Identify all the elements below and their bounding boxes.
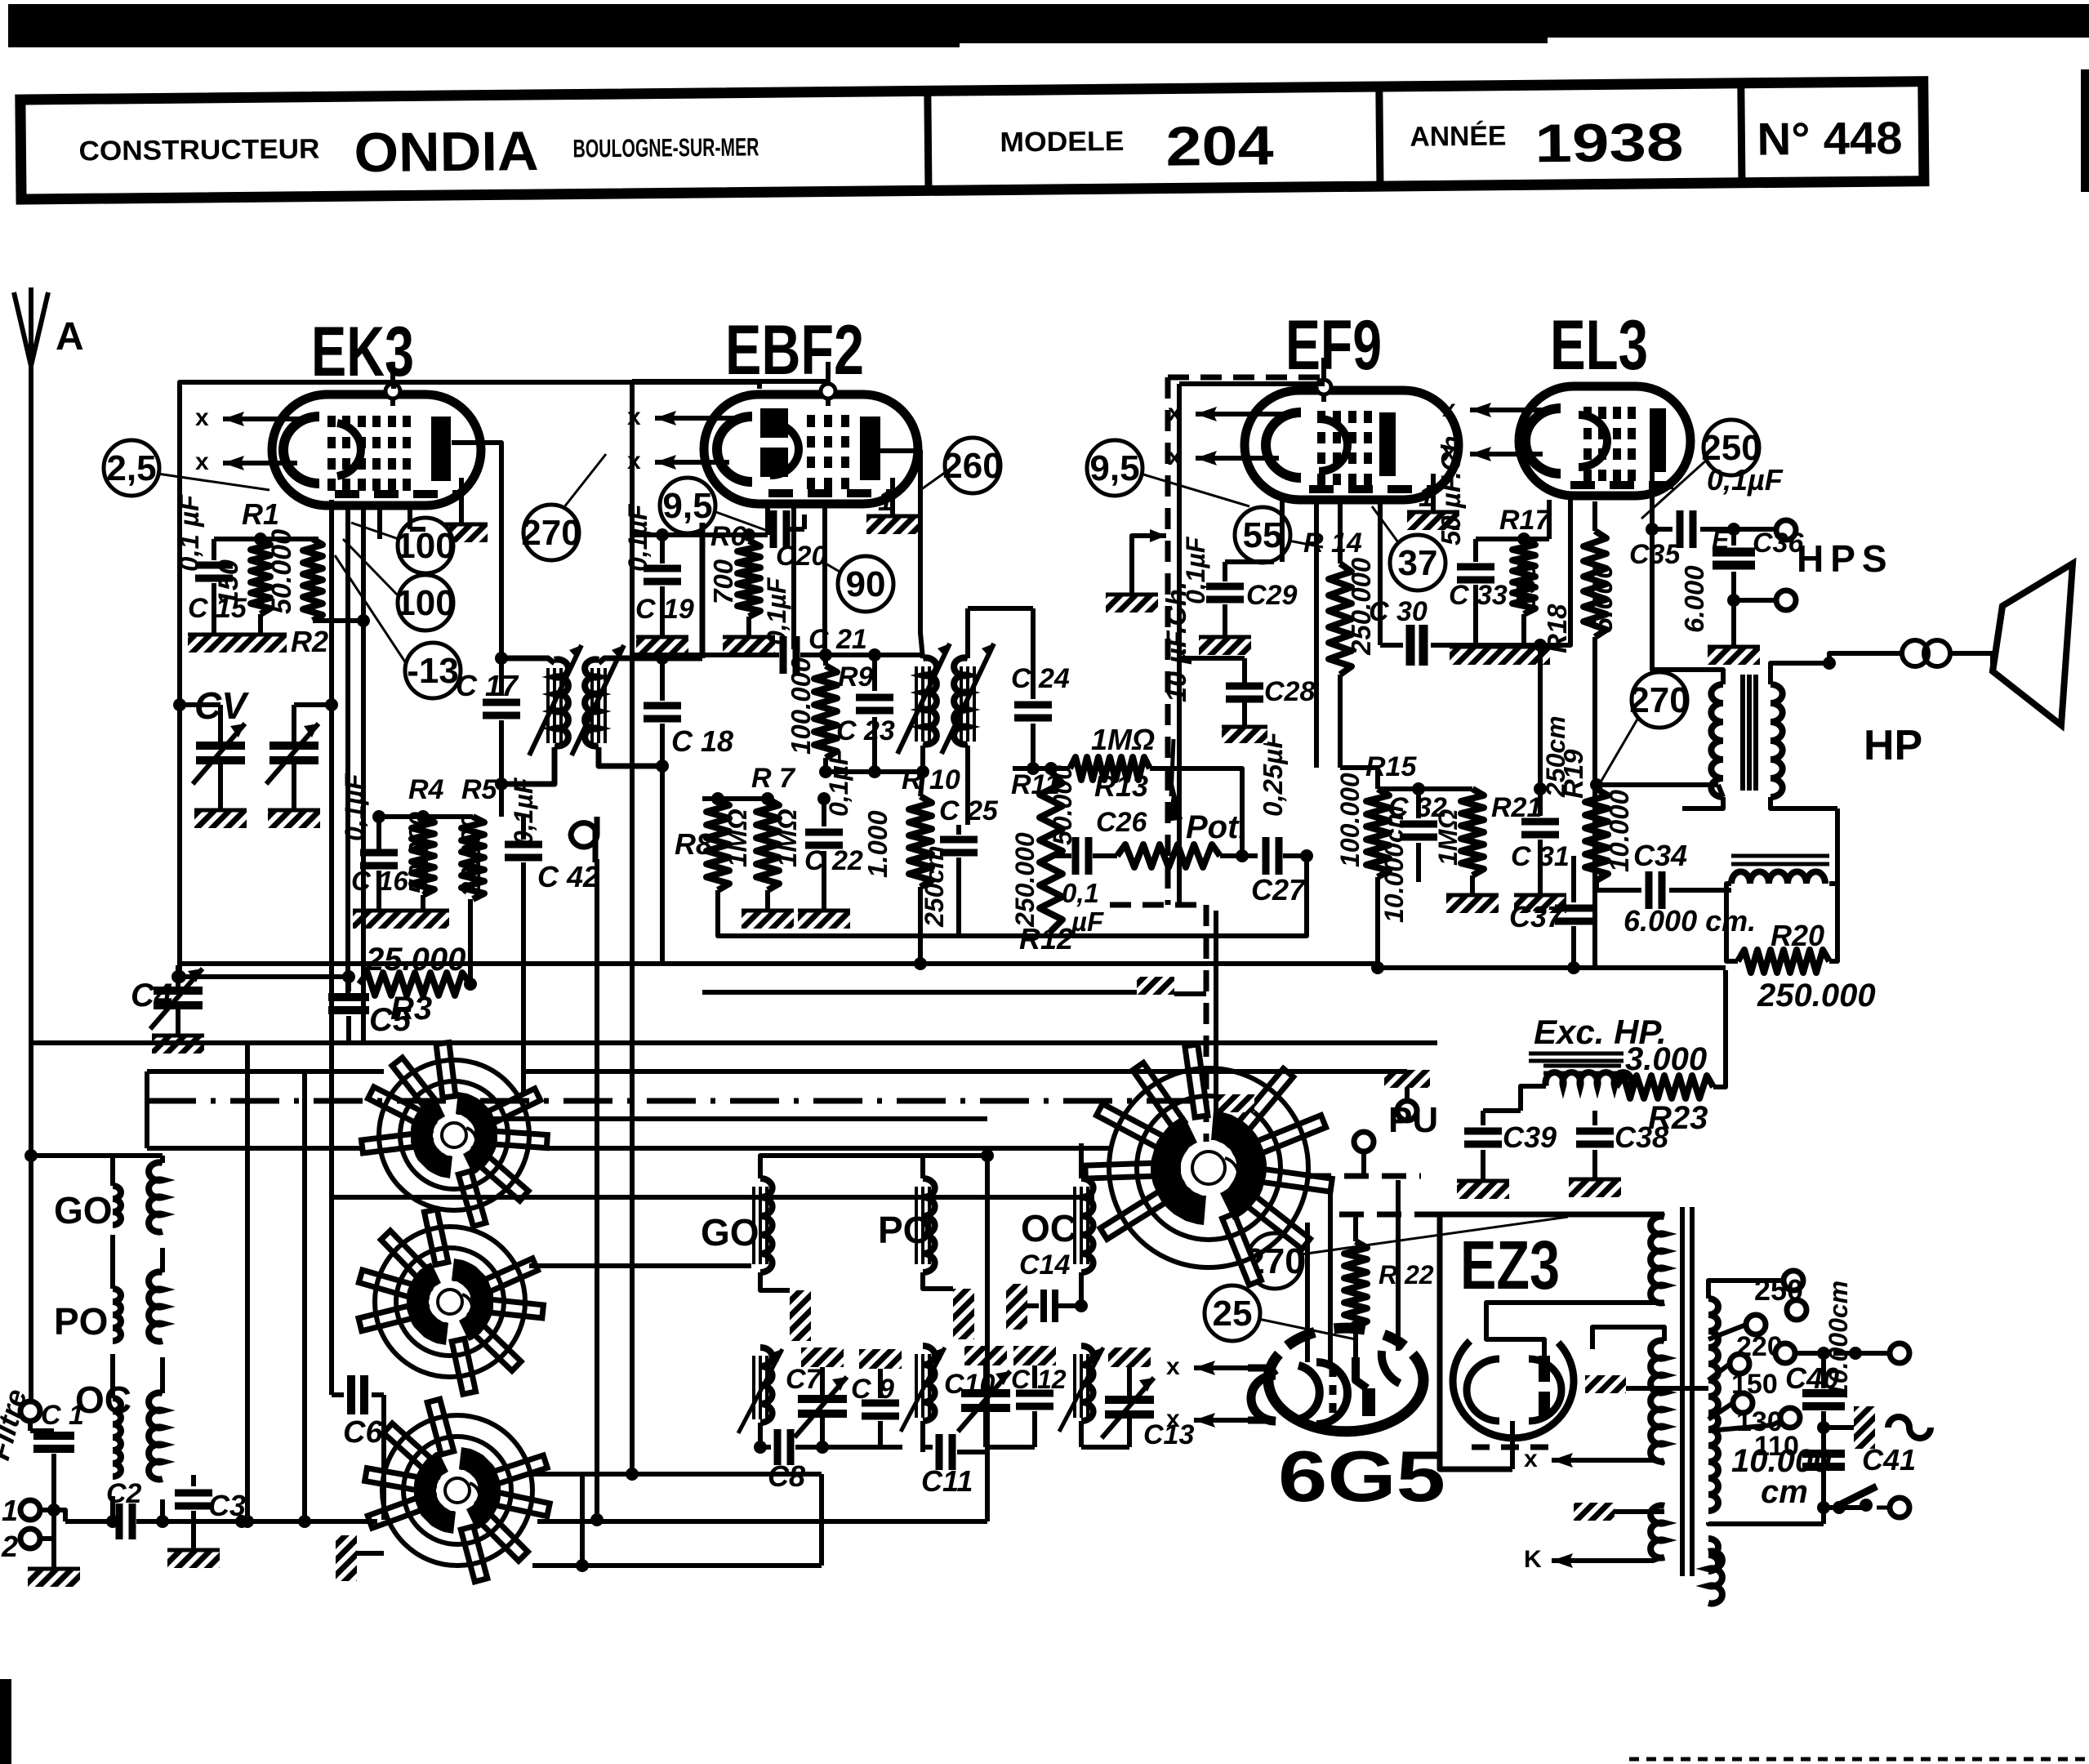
svg-text:CONSTRUCTEUR: CONSTRUCTEUR [78, 134, 319, 167]
node 2,5V [104, 440, 269, 496]
heater winding right [1708, 1539, 1718, 1571]
antenna A [14, 287, 84, 372]
svg-text:-13: -13 [407, 651, 459, 691]
wire bus y1146 left [470, 935, 702, 937]
wire bus AVC [661, 947, 663, 964]
wire R17 top [1476, 532, 1549, 546]
EK3 leads [348, 505, 425, 995]
svg-text:C2: C2 [106, 1478, 142, 1509]
wire EBF2 k [632, 528, 768, 541]
terminal C40 right [1833, 1343, 1909, 1363]
svg-text:x: x [1166, 1405, 1180, 1432]
svg-text:6.000 cm.: 6.000 cm. [1624, 904, 1756, 938]
wire det bus [959, 856, 1307, 936]
svg-text:x: x [1166, 1353, 1180, 1380]
wire EBF2 anode right [880, 451, 920, 608]
node 270V EK3 [521, 454, 606, 560]
svg-text:x: x [195, 404, 209, 431]
tube label EBF2 [725, 311, 864, 390]
wire vert x716 [819, 1474, 824, 1566]
X arrow heater [1524, 1445, 1664, 1472]
wire bus y1215 [702, 990, 1137, 995]
tube label EL3 [1550, 306, 1648, 385]
svg-text:µF: µF [1071, 906, 1104, 937]
tube label EK3 [311, 313, 414, 391]
svg-text:EZ3: EZ3 [1460, 1227, 1560, 1303]
wire bus y1277 [31, 1040, 1437, 1045]
capacitor C41 [1731, 1443, 1916, 1510]
HT secondary winding [1708, 1281, 1824, 1524]
ground R1 [234, 614, 287, 653]
capacitor C37 [1509, 789, 1592, 974]
svg-text:Pot.: Pot. [1186, 809, 1248, 845]
wire ant coil top [24, 1149, 163, 1162]
svg-text:R1: R1 [242, 497, 279, 531]
resistor R20 [1726, 884, 1876, 1013]
node 55V [1235, 507, 1323, 563]
wire bottom y1861 [235, 1515, 987, 1528]
wire bus y1550 [529, 1263, 751, 1268]
capacitor C15 [174, 494, 247, 633]
svg-text:C 16: C 16 [351, 866, 408, 896]
svg-text:R 14: R 14 [1303, 528, 1362, 559]
wire antenna rail [29, 359, 33, 1411]
svg-text:C26: C26 [1096, 807, 1147, 838]
mains sine symbol [1888, 1417, 1931, 1438]
wire EK3 box [180, 382, 759, 964]
ground C33 [1450, 645, 1502, 665]
oscillator coil PO [901, 1156, 974, 1447]
wire dashdot y1348 [147, 1098, 1192, 1104]
svg-text:C28: C28 [1264, 676, 1315, 707]
node 100V a [351, 518, 456, 573]
capacitor C33 [1436, 428, 1508, 645]
resistor R3 [359, 942, 470, 1027]
svg-text:50.000: 50.000 [266, 529, 297, 614]
shield box EF9 [1110, 377, 1325, 1142]
capacitor C14 [1006, 1249, 1088, 1330]
oscillator coil OC [1059, 1143, 1103, 1447]
svg-text:C35: C35 [1629, 539, 1681, 570]
capacitor C29 [1181, 536, 1297, 635]
dashed heater S4 [1307, 1176, 1535, 1214]
trimmer C10 [944, 1346, 1010, 1447]
tube EF9 [1168, 358, 1459, 500]
svg-text:R2: R2 [291, 625, 328, 658]
wire C37 top [1573, 789, 1575, 856]
resistor R15 [1335, 751, 1417, 974]
wire bus y1180 [180, 961, 1378, 966]
svg-text:R17: R17 [1499, 505, 1552, 536]
svg-text:C 19: C 19 [635, 594, 694, 625]
wire IF2 sec bottom [967, 764, 969, 825]
EF9 leads [1282, 500, 1316, 768]
capacitor C2 [40, 1478, 242, 1539]
wire vert x220 [179, 964, 180, 977]
output transformer [1682, 663, 1837, 808]
tube label EF9 [1285, 306, 1382, 385]
svg-text:EF9: EF9 [1285, 306, 1382, 385]
svg-text:PO: PO [54, 1300, 108, 1343]
svg-text:6.000: 6.000 [1679, 565, 1709, 633]
wire R4 top [372, 810, 473, 823]
node -13V [335, 555, 461, 698]
svg-text:25: 25 [1213, 1294, 1253, 1334]
wire vert x1209 [985, 1156, 990, 1521]
node 37V [1372, 506, 1445, 590]
resistor R21 [1433, 789, 1542, 875]
svg-text:1: 1 [2, 1494, 18, 1527]
svg-text:PU: PU [1388, 1100, 1438, 1140]
capacitor C1 [20, 1400, 84, 1510]
capacitor C20 [762, 510, 826, 645]
svg-text:cm: cm [1761, 1474, 1808, 1510]
capacitor C16 [340, 773, 408, 909]
electrolytic C30 10uF [1369, 500, 1540, 666]
wire CV top [173, 698, 338, 722]
wire vert x1006 [819, 1535, 824, 1557]
capacitor C11 [921, 1434, 986, 1498]
svg-text:1.000: 1.000 [862, 810, 893, 878]
svg-text:HPS: HPS [1797, 537, 1894, 580]
resistor R7 [751, 763, 802, 890]
electrolytic 10uF [0, 0, 1, 1]
terminal PU [1384, 1070, 1438, 1140]
svg-text:1: 1 [878, 486, 893, 517]
tap 130 [1708, 1393, 1783, 1437]
svg-text:C 42: C 42 [537, 860, 599, 893]
svg-text:C6: C6 [343, 1415, 383, 1450]
svg-text:x: x [195, 448, 209, 475]
svg-text:50 µF.Ch.: 50 µF.Ch. [1436, 428, 1466, 546]
svg-text:C3: C3 [208, 1489, 246, 1522]
wire top EL3 [0, 0, 1, 1]
label PO osc [878, 1209, 932, 1251]
svg-text:C39: C39 [1503, 1120, 1557, 1154]
svg-text:0,25µF: 0,25µF [1258, 732, 1288, 817]
tube 6G5 [1166, 1328, 1423, 1432]
ground S4 side [1218, 1094, 1254, 1112]
ground EF9 left [1106, 529, 1166, 612]
capacitor C3 [175, 1475, 246, 1548]
capacitor C24 [1000, 608, 1070, 775]
rectifier EZ3 [1453, 1341, 1574, 1447]
svg-text:90: 90 [846, 564, 886, 604]
svg-text:700: 700 [708, 559, 738, 604]
capacitor C9 [822, 1349, 902, 1447]
svg-text:1MΩ: 1MΩ [722, 808, 752, 867]
svg-text:C20: C20 [776, 541, 826, 572]
trimmer C13 [1081, 1347, 1194, 1450]
svg-text:9,5: 9,5 [662, 486, 712, 526]
capacitor C35 [1629, 463, 1786, 570]
svg-text:10.000: 10.000 [1604, 789, 1634, 872]
power transformer core [1682, 1207, 1692, 1576]
resistor R23 [1616, 970, 1726, 1136]
resistor R2 [266, 529, 328, 658]
capacitor C21 [632, 624, 923, 674]
node 260V [920, 438, 1003, 493]
svg-text:C 21: C 21 [808, 624, 867, 655]
svg-text:ONDIA: ONDIA [354, 120, 539, 184]
svg-text:260: 260 [942, 446, 1002, 486]
wire EF9 g [1225, 559, 1274, 564]
svg-text:0,1 µF: 0,1 µF [174, 494, 204, 572]
svg-text:150: 150 [1511, 563, 1541, 608]
wire y945 [826, 765, 929, 778]
variable capacitor C4 [131, 965, 203, 1034]
ground C31 [1514, 893, 1566, 913]
svg-text:C38: C38 [1615, 1120, 1668, 1154]
svg-text:100: 100 [395, 583, 455, 623]
svg-text:HP: HP [1864, 722, 1922, 769]
resistor R1 [213, 497, 279, 614]
svg-text:C 31: C 31 [1511, 841, 1570, 872]
node 9,5V EF9 [1087, 440, 1249, 506]
capacitor C32 [1378, 782, 1472, 923]
label R12 [1019, 922, 1073, 955]
node 250V EL3 [1641, 420, 1762, 519]
wire R8 down [718, 890, 1013, 936]
svg-text:C41: C41 [1862, 1443, 1916, 1477]
resistor R14 [1303, 501, 1376, 768]
ground R21 [1446, 875, 1499, 913]
node 25V 6G5 [1205, 1285, 1356, 1341]
wire bus y1312 [147, 1071, 1407, 1148]
capacitor C28 [1179, 658, 1315, 725]
wire R14 R15 bus [1340, 765, 1378, 770]
ground C29 [1199, 635, 1251, 655]
terminal PU2 [1354, 1132, 1374, 1176]
wire heater right [1708, 1602, 1709, 1604]
resistor R17 [1499, 505, 1552, 614]
ground R6 [723, 617, 775, 655]
svg-text:270: 270 [1629, 680, 1689, 720]
wire bottom y1906 [532, 1474, 822, 1572]
ground C19 [636, 635, 688, 655]
rectifier EZ3 box [1440, 1214, 1664, 1469]
mains primary winding [1592, 1217, 1664, 1558]
svg-text:C 1: C 1 [41, 1400, 84, 1431]
wire bus2 [823, 798, 825, 800]
wire R3 right [464, 899, 477, 991]
svg-text:50.000: 50.000 [1048, 765, 1077, 845]
label Filtre [0, 1385, 33, 1463]
terminal T1 [20, 1500, 60, 1520]
svg-text:2: 2 [1, 1530, 18, 1563]
svg-text:250.000: 250.000 [1757, 978, 1876, 1013]
capacitor C26 [1051, 807, 1147, 937]
svg-text:150: 150 [213, 559, 244, 606]
svg-text:N° 448: N° 448 [1757, 112, 1903, 165]
wire det node [968, 764, 1013, 936]
node 270V 6G5 [1245, 1217, 1568, 1289]
label CV [194, 684, 249, 727]
title banner [20, 82, 1924, 199]
wire R13 to C27 [1169, 768, 1242, 856]
capacitor C34 [1597, 839, 1756, 938]
ground CV1 [194, 808, 247, 828]
tap 220 [1708, 1315, 1783, 1362]
svg-text:R5: R5 [461, 774, 498, 805]
svg-text:x: x [1524, 1445, 1538, 1472]
label EZ3 [1460, 1227, 1560, 1303]
svg-text:R12: R12 [1019, 922, 1073, 955]
ground C15 [188, 633, 240, 653]
node 9,5V EBF2 [660, 478, 768, 533]
ground C28 [1222, 725, 1267, 743]
svg-text:A: A [56, 315, 84, 359]
wire top EBF2 box [632, 381, 828, 1474]
ground EBF2 bulb [866, 478, 919, 534]
ground R17 [1498, 614, 1550, 665]
ground heater [1574, 1503, 1664, 1521]
svg-text:1MΩ: 1MΩ [772, 808, 802, 867]
node 270V out [1599, 672, 1690, 785]
tap 110 [1708, 1408, 1800, 1462]
svg-text:55: 55 [1243, 515, 1283, 555]
svg-text:100: 100 [395, 526, 455, 566]
field coil Exc [1521, 1066, 1632, 1111]
svg-text:GO: GO [701, 1211, 759, 1254]
svg-text:R 10: R 10 [902, 764, 960, 795]
resistor R13 [1013, 723, 1169, 803]
capacitor C31 [1511, 715, 1570, 893]
svg-text:250.000: 250.000 [1010, 832, 1040, 928]
label 6G5 [1278, 1436, 1445, 1517]
svg-text:R13: R13 [1094, 769, 1148, 803]
EL3 leads [1594, 500, 1596, 531]
svg-text:C34: C34 [1633, 839, 1687, 872]
resistor R6 [708, 521, 760, 617]
svg-text:C 9: C 9 [851, 1374, 894, 1405]
label OC ant [75, 1379, 131, 1421]
tube EK3 [195, 362, 481, 506]
wire vert x373 [298, 1071, 311, 1528]
ground C38 [1569, 1178, 1621, 1197]
tap 150 [1708, 1354, 1778, 1400]
tube EBF2 [627, 362, 918, 504]
wire EL3 anode [1652, 470, 1723, 670]
svg-text:OC: OC [1021, 1207, 1077, 1249]
capacitor C42 [505, 777, 599, 1094]
svg-text:C7: C7 [786, 1364, 823, 1395]
trimmer C7 [786, 1347, 847, 1454]
wire EZ3 plates [1486, 1303, 1664, 1469]
capacitor C8 [760, 1429, 822, 1493]
svg-text:204: 204 [1165, 114, 1274, 177]
ground EF9 bulb [1407, 474, 1459, 530]
svg-text:EK3: EK3 [311, 313, 414, 391]
label Exc HP [1529, 1013, 1667, 1061]
svg-text:100.000: 100.000 [1335, 773, 1365, 867]
variable capacitor CV2 [266, 720, 318, 808]
svg-text:R19: R19 [1558, 749, 1588, 799]
ground R7 [742, 890, 794, 929]
ground EK3 bulb [435, 478, 488, 542]
wire C4 node [173, 964, 347, 983]
svg-text:270: 270 [521, 513, 581, 553]
resistor R5 [456, 774, 498, 899]
svg-text:ANNÉE: ANNÉE [1410, 121, 1506, 153]
ground C36 [1708, 645, 1760, 665]
svg-text:0,1µF: 0,1µF [1707, 463, 1784, 497]
antenna coil OC [106, 1393, 169, 1529]
svg-text:EL3: EL3 [1550, 306, 1648, 385]
ground shield [1137, 977, 1206, 995]
ground HT center [1585, 1375, 1708, 1393]
EK3 anode wire [452, 443, 501, 658]
mains switch [1817, 1486, 1909, 1517]
electrolytic C36 [1679, 523, 1804, 645]
ground C4 [152, 1034, 204, 1053]
resistor R8 [675, 799, 752, 890]
svg-text:C29: C29 [1246, 580, 1297, 611]
EBF2 leads [768, 505, 825, 661]
resistor R22 [1344, 1215, 1434, 1334]
svg-text:100.000: 100.000 [786, 657, 816, 755]
wire top EF9 [0, 0, 1, 1]
svg-text:250cm: 250cm [920, 845, 949, 928]
svg-text:20.000: 20.000 [456, 813, 486, 898]
variable capacitor CV1 [193, 720, 245, 808]
wire R7 top [702, 792, 774, 805]
6G5 leads [1307, 1180, 1398, 1363]
wire vert x465 [393, 389, 394, 490]
svg-text:C 33: C 33 [1449, 580, 1508, 611]
capacitor C27 [1251, 732, 1313, 906]
svg-text:1: 1 [1419, 482, 1434, 513]
terminal HPS2 [1727, 590, 1796, 610]
K arrow heater [1524, 1546, 1664, 1573]
svg-text:R20: R20 [1771, 919, 1824, 952]
svg-text:BOULOGNE-SUR-MER: BOULOGNE-SUR-MER [572, 132, 759, 163]
potentiometer Pot [1117, 739, 1248, 867]
svg-text:0,1µF: 0,1µF [623, 503, 653, 572]
ground C39 [1457, 1179, 1509, 1199]
ground C22 [798, 909, 850, 929]
terminal T2 [1, 1494, 54, 1563]
svg-text:GO: GO [54, 1189, 113, 1232]
wire S4 right solid [1308, 1167, 1568, 1169]
wire bus y1185 right [1378, 965, 1726, 970]
oscillator coil GO [738, 1149, 994, 1454]
svg-text:C37: C37 [1509, 900, 1565, 933]
svg-text:C14: C14 [1019, 1249, 1070, 1281]
label GO osc [701, 1211, 759, 1254]
wire R1 top [214, 532, 318, 546]
ground C3 [167, 1548, 220, 1568]
svg-text:10.000cm: 10.000cm [1824, 1281, 1853, 1398]
svg-text:0,1: 0,1 [1062, 878, 1099, 908]
wire T1 C2 [54, 1510, 65, 1521]
capacitor C12 [986, 1346, 1067, 1447]
svg-text:R8: R8 [675, 827, 712, 861]
IF2 transformer [898, 608, 1000, 825]
svg-text:C 30: C 30 [1369, 596, 1428, 627]
wire out sec down [1835, 808, 1840, 884]
resistor R10 [862, 764, 960, 970]
speaker HP [1864, 563, 2073, 769]
svg-text:0,1µF: 0,1µF [824, 748, 853, 817]
svg-text:3.000: 3.000 [1625, 1041, 1707, 1077]
resistor R4 [403, 774, 444, 895]
resistor R18 [1542, 501, 1619, 968]
svg-text:x: x [1442, 395, 1456, 422]
svg-text:0,1µF: 0,1µF [509, 777, 538, 845]
svg-text:C 18: C 18 [671, 724, 733, 758]
heater winding 6G5 [1708, 1552, 1722, 1604]
